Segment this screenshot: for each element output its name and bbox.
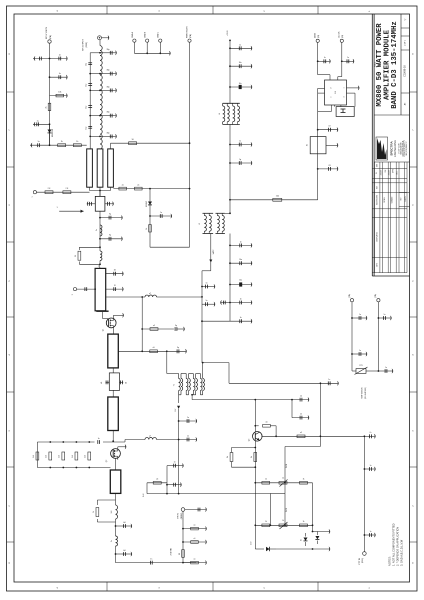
resistor R8 — [45, 188, 53, 194]
svg-text:9p: 9p — [175, 325, 177, 327]
capacitor C42 — [364, 432, 375, 439]
capacitor C12 — [100, 86, 117, 92]
svg-text:Q2: Q2 — [106, 460, 108, 462]
svg-text:1n: 1n — [59, 73, 61, 75]
resistor R3 — [58, 141, 66, 147]
wire U1 bottom pins — [318, 105, 341, 112]
capacitor C48 — [318, 165, 338, 172]
resistor R16 — [59, 452, 65, 460]
wire KEYL rail — [49, 43, 51, 146]
resistor R13 — [150, 347, 158, 352]
svg-text:1k: 1k — [251, 456, 253, 458]
svg-text:15p: 15p — [86, 106, 88, 109]
svg-text:ISS 2: ISS 2 — [397, 171, 399, 174]
svg-text:TEMP SENSOR: TEMP SENSOR — [362, 387, 364, 399]
wire Z7 output tap — [118, 350, 167, 352]
transformer T1 winding pair B — [216, 212, 231, 233]
wire gate bias rail driver2 — [178, 440, 180, 494]
capacitor C28 — [100, 214, 123, 221]
capacitor C39 — [116, 550, 133, 556]
stripline Z3 — [108, 149, 114, 187]
svg-text:1n: 1n — [150, 559, 152, 561]
diode D4 — [315, 532, 319, 545]
capacitor C46 — [342, 57, 354, 64]
svg-text:3d: 3d — [114, 270, 116, 272]
wire driver gate rail — [99, 211, 101, 247]
ground Q3 drain stub — [118, 444, 126, 449]
capacitor C47 — [318, 126, 338, 133]
svg-text:ENGINEERING: ENGINEERING — [394, 140, 397, 157]
svg-text:18: 18 — [179, 553, 181, 555]
node RF OUTPUT (50W) terminal — [83, 36, 102, 51]
capacitor C19 — [230, 141, 252, 147]
capacitor C5 — [38, 141, 40, 147]
wire Q4 base rail — [254, 441, 256, 549]
capacitor C52 — [378, 367, 393, 374]
capacitor C27 — [105, 201, 114, 206]
resistor R7 — [135, 184, 143, 190]
svg-text:1k: 1k — [303, 479, 305, 481]
svg-text:NOTES:: NOTES: — [388, 556, 392, 566]
capacitor C49 — [352, 314, 367, 321]
svg-text:1n: 1n — [187, 435, 189, 437]
svg-text:10-03-98: 10-03-98 — [381, 170, 383, 175]
svg-text:10k: 10k — [276, 196, 279, 198]
svg-text:10u: 10u — [239, 279, 242, 281]
svg-text:15p: 15p — [86, 127, 88, 130]
transistor Q4 BJT — [249, 432, 263, 442]
svg-text:a6: a6 — [266, 422, 268, 424]
ground U1 right pin — [347, 86, 360, 91]
svg-text:GND C: GND C — [158, 31, 160, 38]
resistor R18 — [85, 452, 91, 460]
capacitor C7 — [86, 84, 93, 87]
resistor R31 — [300, 521, 308, 526]
capacitor C45 — [318, 57, 331, 64]
resistor R2 — [46, 103, 51, 110]
capacitor C55 — [292, 414, 309, 421]
svg-text:15p: 15p — [86, 63, 88, 66]
svg-text:2. * DEPENDS ON APPLICATION: 2. * DEPENDS ON APPLICATION — [396, 527, 400, 566]
capacitor C37 — [98, 438, 100, 444]
wire VAPC tap with arrow — [201, 234, 215, 363]
wire input feed to output striplines — [30, 143, 87, 148]
wire Q1 source to Z7 — [113, 328, 115, 334]
svg-text:L5: L5 — [199, 223, 201, 225]
capacitor C21 — [202, 282, 215, 289]
resistor R30 — [262, 521, 270, 526]
wire Q4 emitter row — [262, 435, 366, 437]
resistor R32 — [153, 479, 161, 484]
inductor L5 — [145, 293, 202, 297]
svg-text:39p: 39p — [107, 49, 110, 51]
svg-text:2k: 2k — [146, 228, 148, 230]
capacitor C51 — [378, 314, 391, 321]
wire arrow annotation driver — [56, 207, 83, 213]
svg-text:(PA): (PA) — [374, 294, 377, 298]
svg-text:REV: REV — [376, 186, 378, 189]
wire PWR VOLTS rail — [189, 42, 191, 247]
capacitor C18 tantalum — [230, 83, 252, 90]
svg-text:C8: C8 — [328, 165, 330, 167]
matching block Z4 — [95, 191, 105, 212]
svg-text:1n: 1n — [384, 314, 386, 316]
resistor R19 parallel inductor L7 — [93, 493, 118, 522]
svg-text:VAPC: VAPC — [212, 249, 215, 254]
svg-text:1k: 1k — [282, 520, 284, 522]
ground Q1 drain stub — [114, 313, 124, 318]
svg-text:(PA): (PA) — [348, 294, 351, 298]
svg-text:39p: 39p — [107, 86, 110, 88]
wire stripline bottoms join — [90, 187, 111, 196]
capacitor C2 — [50, 55, 68, 61]
wire output capacitor bus — [90, 52, 101, 149]
wire bias riser x320 — [320, 382, 322, 436]
capacitor C25 — [230, 317, 252, 324]
svg-text:CHK: CHK — [385, 170, 387, 173]
wire PA supply rail — [229, 40, 231, 321]
svg-text:1n: 1n — [174, 462, 176, 464]
wire T2 left leg with arrow — [175, 395, 180, 441]
resistor R24 feedback — [255, 422, 276, 437]
svg-text:b8: b8 — [124, 550, 126, 552]
svg-text:10: 10 — [132, 139, 134, 141]
svg-text:1n: 1n — [239, 141, 241, 143]
svg-text:a1: a1 — [194, 525, 196, 527]
wire transformer T2 input drop — [167, 351, 179, 373]
svg-text:10u: 10u — [239, 83, 242, 85]
svg-text:1n: 1n — [385, 367, 387, 369]
svg-text:TITLE: TITLE — [375, 61, 377, 67]
svg-text:1n: 1n — [187, 417, 189, 419]
wire bias row 2 — [255, 524, 312, 526]
resistor R12 parallel inductor L4 — [75, 246, 102, 265]
wire gate feed riser — [141, 297, 143, 351]
wire bias row loop link — [270, 483, 287, 526]
svg-text:1 TULIP CLOSE: 1 TULIP CLOSE — [399, 143, 401, 154]
svg-text:1k: 1k — [265, 479, 267, 481]
svg-text:RV1B: RV1B — [286, 508, 288, 512]
svg-text:1n: 1n — [240, 298, 242, 300]
zener diode D1 BZX84C10 — [48, 124, 54, 145]
svg-text:2k: 2k — [46, 106, 48, 108]
svg-text:Cx: Cx — [370, 432, 372, 434]
capacitor C13 — [100, 112, 117, 118]
svg-text:1n: 1n — [98, 438, 100, 440]
node GND C terminal — [158, 31, 162, 42]
svg-text:BAND C-D3 135-174MHz: BAND C-D3 135-174MHz — [391, 21, 399, 109]
svg-text:2: 2 — [72, 294, 74, 295]
svg-text:39p: 39p — [107, 70, 110, 72]
wire Q2 collector rail — [254, 400, 256, 432]
resistor R21 — [183, 538, 207, 544]
resistor R20 — [183, 525, 207, 531]
svg-text:2k4: 2k4 — [59, 455, 61, 458]
svg-text:a6: a6 — [156, 479, 158, 481]
wire driver input rail — [115, 522, 117, 536]
svg-text:a7: a7 — [149, 293, 151, 295]
capacitor C34 — [179, 435, 197, 442]
stripline Z1 — [87, 149, 93, 187]
wire resistor bank rails — [37, 441, 125, 468]
svg-text:39: 39 — [75, 255, 77, 257]
svg-text:(PA): (PA) — [49, 35, 52, 39]
svg-text:a7: a7 — [149, 435, 151, 437]
resistor R26 parallel R27 loop — [227, 448, 257, 468]
svg-text:1n: 1n — [347, 57, 349, 59]
ground at RF output — [102, 35, 110, 40]
svg-text:1k: 1k — [265, 521, 267, 523]
svg-text:1 OF 1: 1 OF 1 — [405, 39, 407, 46]
wire PA rail to VAPC link — [202, 320, 230, 322]
diode D3 — [301, 533, 308, 546]
svg-text:a1: a1 — [194, 559, 196, 561]
node GND B terminal — [145, 31, 149, 42]
svg-text:b8: b8 — [124, 522, 126, 524]
node CLOCK (IN) terminal — [339, 31, 344, 43]
svg-text:10n: 10n — [239, 62, 242, 64]
capacitor C16 — [230, 44, 252, 50]
svg-text:C4: C4 — [300, 396, 302, 398]
svg-text:2k4: 2k4 — [46, 455, 48, 458]
stripline Z9 — [108, 397, 119, 431]
trimmer RV1 — [279, 478, 288, 487]
capacitor C26 — [87, 201, 95, 206]
wire T2 output to Q2 stage — [191, 394, 293, 401]
svg-text:L4: L4 — [219, 113, 221, 115]
svg-text:2k4: 2k4 — [72, 455, 74, 458]
svg-text:3n9: 3n9 — [111, 511, 113, 514]
capacitor C31 — [77, 287, 96, 291]
svg-text:D1: D1 — [301, 539, 303, 541]
zener diode D5 — [266, 547, 276, 551]
inductor L2 choke bank — [219, 103, 240, 124]
wire bias row1 riser — [285, 436, 321, 483]
wire bias row 1 — [255, 482, 312, 484]
svg-text:1k: 1k — [76, 141, 78, 143]
wire RF IN rail — [169, 511, 184, 563]
svg-text:BZX84C: BZX84C — [146, 200, 148, 207]
svg-text:DRN: DRN — [377, 164, 379, 167]
capacitor C30b — [106, 285, 124, 292]
svg-text:3n: 3n — [96, 229, 98, 231]
resistor R28 — [262, 479, 270, 484]
svg-text:10k: 10k — [58, 92, 61, 94]
node KEYL VOLTS (PA) terminal — [46, 26, 52, 43]
svg-text:SPECTRA: SPECTRA — [390, 141, 394, 156]
node PA sense terminal 1 — [348, 294, 354, 302]
capacitor C32 — [167, 347, 187, 354]
svg-text:PTT IN: PTT IN — [359, 558, 361, 565]
svg-text:1u: 1u — [370, 465, 372, 467]
resistor R9 — [63, 188, 71, 194]
capacitor C14 — [100, 132, 117, 138]
svg-text:1n: 1n — [359, 314, 361, 316]
node PTT IN (DIG) terminal — [359, 552, 366, 565]
svg-text:a5: a5 — [137, 184, 139, 186]
svg-text:a9: a9 — [300, 432, 302, 434]
inductor L8 — [111, 536, 117, 546]
inductor L6 — [125, 435, 179, 442]
wire input rail bottom — [115, 546, 197, 563]
svg-text:C9: C9 — [328, 126, 330, 128]
crystal X1 — [307, 137, 326, 154]
svg-text:9p: 9p — [239, 159, 241, 161]
node RF IN (0DBM) terminal — [178, 508, 185, 520]
svg-text:RT1: RT1 — [359, 365, 362, 367]
svg-text:(IN): (IN) — [318, 34, 320, 38]
capacitor C56 — [364, 465, 375, 472]
svg-text:1n: 1n — [59, 55, 61, 57]
svg-text:1n: 1n — [160, 212, 162, 214]
capacitor C43 — [167, 462, 184, 469]
node VG1 terminal — [72, 288, 77, 296]
resistor R22 — [179, 550, 185, 558]
op-amp U1 control IC — [325, 80, 347, 105]
svg-text:1. NOT ALL COMPONENTS FITTED: 1. NOT ALL COMPONENTS FITTED — [392, 523, 396, 566]
capacitor C36 — [120, 381, 128, 385]
resistor R25 — [297, 432, 305, 437]
svg-text:b8: b8 — [125, 382, 127, 384]
capacitor C4 — [33, 120, 50, 126]
svg-text:(0DBM): (0DBM) — [181, 512, 183, 519]
capacitor C15 — [150, 212, 172, 218]
resistor R11 — [273, 196, 282, 202]
wire stripline bottom bar — [96, 311, 108, 312]
capacitor C32a — [175, 325, 185, 332]
capacitor C54 — [292, 396, 309, 403]
zener diode D2 — [146, 200, 152, 207]
svg-text:39p: 39p — [107, 112, 110, 114]
node GND A terminal — [131, 31, 136, 42]
node PWR VOLTS (PA) terminal — [186, 26, 192, 42]
capacitor C17 — [230, 62, 252, 68]
svg-text:RF OUTPUT: RF OUTPUT — [83, 39, 85, 51]
svg-text:3. GND A,B,C,D,L,V,W: 3. GND A,B,C,D,L,V,W — [400, 539, 404, 566]
wire DATA line — [317, 43, 330, 81]
capacitor C25d tantalum — [230, 279, 252, 287]
transistor Q1 driver MOSFET — [103, 312, 117, 331]
wire CLOCK line — [338, 43, 343, 81]
capacitor C1 — [33, 56, 50, 61]
inductor L1 output coil — [100, 40, 102, 149]
capacitor C20 — [230, 159, 252, 165]
thermistor RT1 temp sensor — [352, 365, 378, 399]
svg-text:3n: 3n — [111, 540, 113, 542]
capacitor C9 — [86, 126, 93, 129]
svg-text:ISSUE RECORD: ISSUE RECORD — [376, 195, 378, 205]
wire gate stub x292 — [291, 400, 293, 418]
capacitor C6 — [86, 63, 93, 66]
crystal Y1 box — [336, 107, 354, 117]
resistor R5 — [129, 139, 137, 145]
svg-text:b8: b8 — [101, 382, 103, 384]
svg-text:1n: 1n — [328, 379, 330, 381]
wire bias stub rail — [166, 466, 168, 494]
wire U1 supply rail — [317, 112, 319, 200]
resistor R13a — [142, 325, 174, 330]
capacitor C30 — [106, 270, 124, 277]
svg-text:RF IN: RF IN — [178, 513, 180, 519]
transformer T1 winding pair A — [199, 213, 213, 233]
svg-text:(IN): (IN) — [342, 34, 344, 38]
resistor R6 — [119, 184, 127, 190]
wire driver bias feed — [113, 188, 189, 190]
resistor R10 — [146, 225, 152, 232]
node PA supply tap — [227, 29, 231, 41]
svg-text:Q1: Q1 — [103, 329, 105, 331]
svg-text:+13.8V: +13.8V — [227, 29, 229, 36]
svg-text:1u: 1u — [37, 120, 39, 122]
svg-text:a5: a5 — [153, 347, 155, 349]
svg-text:(50W): (50W) — [86, 42, 88, 48]
svg-text:-7DB PAD: -7DB PAD — [169, 547, 172, 556]
wire GND bus — [134, 42, 169, 54]
svg-text:GND B: GND B — [145, 31, 147, 38]
svg-text:CLOCK: CLOCK — [339, 31, 341, 38]
svg-text:BZX84C10: BZX84C10 — [52, 129, 54, 137]
svg-text:1n: 1n — [206, 282, 208, 284]
svg-text:1k: 1k — [93, 511, 95, 513]
capacitor C10 — [100, 49, 117, 55]
svg-text:2k4: 2k4 — [85, 455, 87, 458]
node bias input terminal — [32, 191, 37, 198]
svg-text:(PA): (PA) — [189, 34, 192, 38]
svg-text:1u: 1u — [38, 141, 40, 143]
svg-text:15p: 15p — [86, 84, 88, 87]
wire T2 supply leg — [202, 363, 204, 374]
wire output stripline top feed — [111, 143, 190, 149]
transformer T2 — [174, 374, 205, 395]
svg-text:a1: a1 — [194, 538, 196, 540]
resistor R4 — [73, 141, 81, 147]
resistor R29 — [300, 479, 308, 484]
stripline Z7 drain line — [108, 334, 119, 368]
capacitor C22 — [202, 300, 215, 307]
capacitor C35 — [101, 381, 110, 385]
svg-text:9p: 9p — [109, 235, 111, 237]
wire coil tap c — [89, 90, 101, 92]
svg-text:1n: 1n — [206, 300, 208, 302]
svg-text:REV: REV — [401, 198, 403, 201]
svg-text:1n: 1n — [239, 44, 241, 46]
capacitor C53 — [320, 379, 338, 386]
svg-text:Q3: Q3 — [249, 439, 251, 441]
resistor R15 — [46, 452, 52, 460]
capacitor C41 — [185, 507, 207, 512]
ground X1 case — [326, 143, 338, 148]
wire S-jog supply routing — [202, 362, 321, 384]
wire bias input — [37, 191, 90, 193]
wire bias column right — [312, 483, 314, 533]
svg-text:9p: 9p — [177, 347, 179, 349]
svg-text:1n: 1n — [370, 531, 372, 533]
capacitor C29 — [100, 235, 123, 242]
trimmer RV2 — [279, 520, 288, 529]
resistor R1 — [50, 92, 68, 99]
svg-text:T1: T1 — [174, 384, 176, 386]
svg-text:KEYL VOLTS: KEYL VOLTS — [46, 26, 48, 39]
capacitor C11 — [100, 70, 117, 76]
capacitor C33 — [179, 417, 197, 423]
svg-text:1n: 1n — [324, 57, 326, 59]
capacitor C8 — [86, 106, 93, 109]
svg-text:NOTE: NOTE — [376, 263, 378, 267]
svg-text:(DIG): (DIG) — [362, 558, 364, 563]
notes text — [388, 523, 404, 566]
capacitor C44 — [167, 482, 182, 487]
svg-text:1n: 1n — [359, 350, 361, 352]
